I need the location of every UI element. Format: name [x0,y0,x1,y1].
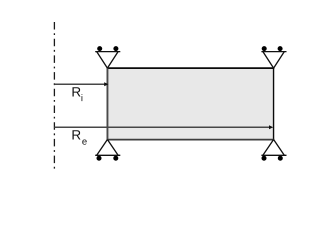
svg-text:e: e [82,137,87,148]
svg-text:i: i [81,93,83,104]
svg-text:R: R [71,85,81,100]
svg-text:R: R [71,128,81,143]
